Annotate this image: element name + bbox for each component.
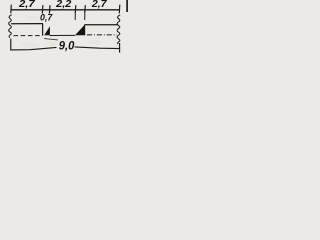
right break line (zigzag)	[117, 15, 120, 44]
top dimension line	[11, 9, 120, 11]
tick at x=11 (left end)	[10, 5, 13, 14]
left break line (zigzag)	[9, 15, 12, 38]
bottom extension line right	[119, 43, 121, 53]
left rod end edge	[42, 24, 44, 36]
tick at x=49.7	[48, 5, 51, 13]
tick at x=85	[84, 5, 87, 13]
faint paper smudges	[21, 43, 39, 48]
bottom dimension line (right part)	[75, 47, 120, 49]
left wedge (solid)	[44, 26, 50, 35]
extension stub x=75.4	[74, 14, 76, 20]
left rod axis (dashed)	[14, 35, 43, 37]
right rod axis (dash-dot)	[87, 34, 117, 36]
right rod top edge	[85, 24, 119, 26]
tick at x=42.5	[41, 5, 44, 13]
tick at x=119.5 (right end)	[118, 5, 121, 14]
right rod left edge	[84, 25, 86, 36]
svg-text:2,2: 2,2	[55, 0, 72, 10]
leader stroke left of 9,0	[44, 39, 58, 40]
bottom dimension line (left part)	[11, 47, 57, 50]
svg-text:9,0: 9,0	[59, 39, 75, 53]
svg-text:2,7: 2,7	[91, 0, 107, 10]
left rod top edge	[11, 23, 43, 25]
extension stub x=84.8	[84, 14, 86, 20]
svg-text:0,7: 0,7	[40, 12, 53, 22]
right wedge (solid)	[75, 25, 84, 35]
scan artifact dark bar at top-right edge	[126, 0, 128, 12]
paper background	[0, 0, 128, 54]
tick at x=75.5	[74, 5, 77, 13]
centre line between wedges	[50, 34, 75, 36]
bottom extension line left	[10, 39, 12, 51]
svg-text:2,7: 2,7	[18, 0, 36, 10]
